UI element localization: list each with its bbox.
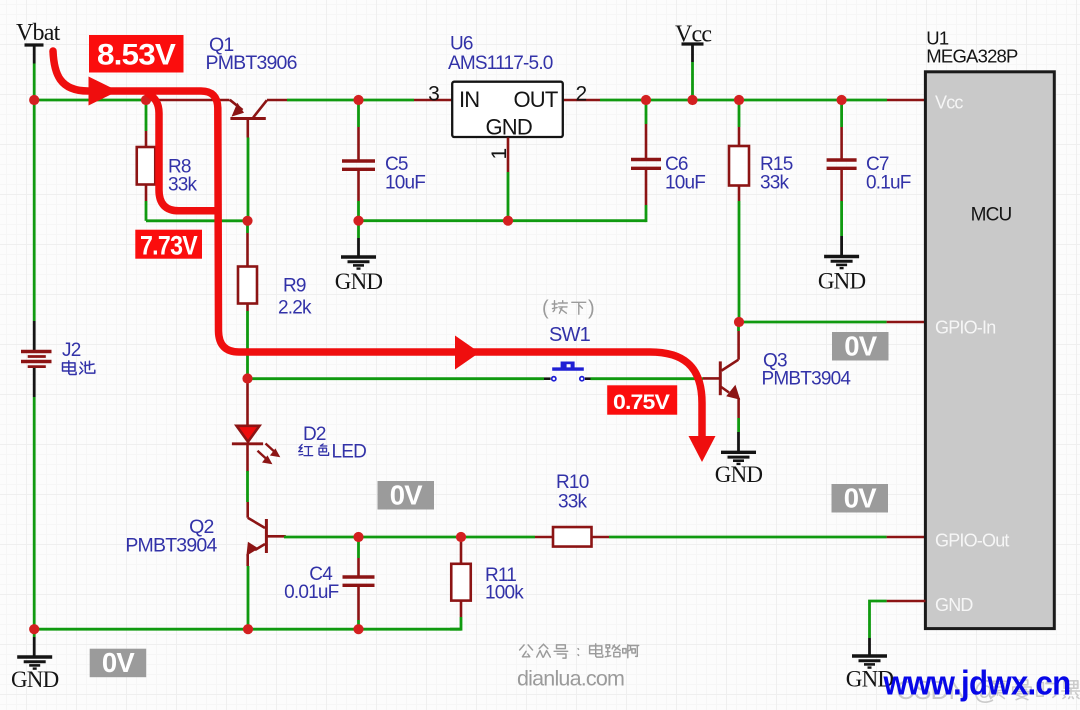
resistor R10: [553, 527, 592, 547]
transistor Q1: [230, 100, 267, 138]
label R11: [485, 565, 524, 604]
node junction 4: [641, 95, 651, 105]
wire top rail to U6: [287, 99, 414, 102]
wire Q2 emitter g: [247, 566, 250, 629]
ground Q3: [715, 452, 763, 487]
annotation 0V left: [90, 647, 147, 678]
svg-text:0V: 0V: [844, 330, 877, 361]
svg-text:3: 3: [428, 83, 439, 106]
wire C7 bot g: [840, 201, 843, 236]
annotation 7.73V: [135, 230, 202, 261]
wire C4 top g: [357, 537, 360, 558]
svg-text:MEGA328P: MEGA328P: [926, 46, 1018, 67]
pin label Vcc: [935, 93, 963, 113]
svg-text:10uF: 10uF: [665, 173, 705, 194]
node junction 1: [29, 95, 39, 105]
regulator U6 box: [452, 82, 563, 137]
wire R8 top g: [145, 100, 148, 131]
node junction 11: [242, 373, 252, 383]
svg-text:PMBT3904: PMBT3904: [125, 535, 217, 557]
svg-text:0.75V: 0.75V: [613, 390, 671, 414]
wire Q1 base g: [247, 138, 250, 221]
label U6 OUT: [513, 87, 557, 112]
wire left rail lower: [33, 397, 36, 629]
node junction 7: [837, 95, 847, 105]
svg-text:GND: GND: [335, 269, 383, 294]
wire R15 top g: [738, 100, 741, 127]
wire R9 bottom lead: [246, 304, 249, 312]
wire Q2 base g: [284, 536, 535, 539]
wire R10 right lead: [592, 536, 610, 539]
wire SW1 to Q3: [591, 377, 704, 380]
svg-text:): ): [588, 298, 594, 320]
node junction 13: [353, 532, 363, 542]
svg-text:Vbat: Vbat: [16, 20, 61, 46]
wire Q1 collector lead: [267, 99, 287, 102]
pin 1: [488, 148, 511, 159]
annotation 0.75V: [607, 385, 677, 414]
wire MCU GND g: [870, 601, 887, 638]
node junction 10: [503, 216, 513, 226]
node junction 9: [353, 216, 363, 226]
wire Q1 emitter lead: [146, 99, 230, 102]
annotation 8.53V: [89, 35, 184, 73]
wire C7 top lead: [840, 127, 843, 159]
label MCU: [971, 205, 1012, 226]
node junction 17: [29, 624, 39, 634]
label D2: [299, 424, 366, 463]
svg-text:0V: 0V: [844, 482, 877, 513]
label Q2: [125, 516, 217, 557]
svg-text:GND: GND: [818, 269, 866, 294]
wire R15 top lead: [738, 127, 741, 146]
wire U6 gnd g: [507, 172, 510, 221]
wire D2 top lead: [246, 379, 249, 426]
svg-text:0V: 0V: [390, 479, 423, 510]
wire mid rail: [359, 219, 647, 222]
wire Q3 emitter g: [737, 418, 740, 432]
svg-text:GPIO-Out: GPIO-Out: [935, 530, 1009, 550]
svg-text:8.53V: 8.53V: [97, 39, 176, 72]
svg-text:PMBT3906: PMBT3906: [206, 52, 297, 74]
svg-text:0V: 0V: [102, 647, 135, 678]
wire Q3 collector g: [737, 322, 740, 331]
wire C5 bot g: [357, 201, 360, 238]
wire battery bottom lead: [33, 367, 36, 397]
wire C4 top lead: [357, 558, 360, 576]
watermark dianlua: [517, 667, 624, 691]
capacitor C5: [342, 161, 375, 169]
svg-text:7.73V: 7.73V: [140, 230, 198, 260]
wire bottom rail: [34, 628, 461, 631]
wire left rail upper: [33, 64, 36, 322]
svg-text:100k: 100k: [485, 583, 524, 604]
wire top rail left: [34, 99, 146, 102]
wire left gnd stub g: [33, 629, 36, 637]
label C6: [665, 154, 705, 194]
wire C6 bot g: [645, 205, 648, 222]
resistor R9: [238, 267, 257, 304]
svg-text:GND: GND: [11, 667, 59, 692]
node junction 16: [353, 624, 363, 634]
current flow arrow R8 branch: [148, 94, 216, 211]
wire R9 to SW1: [248, 377, 545, 380]
wire R15 bot g: [738, 201, 741, 322]
wire D2 to Q2 g: [246, 471, 249, 502]
annotation 0V mid: [378, 479, 435, 510]
wire C6 top lead: [645, 124, 648, 158]
wire MCU Vcc lead: [887, 99, 926, 102]
ground MCU: [846, 656, 894, 692]
wire C4 bot lead: [357, 587, 360, 620]
node junction 2: [141, 95, 151, 105]
label R10: [556, 472, 589, 513]
node junction 15: [243, 624, 253, 634]
node junction 12: [734, 317, 744, 327]
wire U6 IN lead: [414, 99, 452, 102]
wire U6 OUT lead: [563, 99, 600, 102]
wire R8 bottom lead: [145, 185, 148, 202]
wire battery top lead: [33, 321, 36, 351]
label Q1: [206, 34, 297, 74]
svg-text:PMBT3904: PMBT3904: [762, 369, 852, 390]
pin label GPIO-Out: [935, 530, 1009, 550]
label J2 name: [63, 361, 95, 375]
resistor R8: [137, 147, 156, 185]
svg-text:dianlua.com: dianlua.com: [517, 667, 624, 691]
svg-text:2: 2: [576, 83, 587, 106]
svg-text:R9: R9: [283, 276, 306, 297]
svg-text:J2: J2: [62, 340, 81, 361]
wire R11 bot lead: [460, 601, 463, 617]
wire C5 bot lead: [357, 171, 360, 201]
label U6: [448, 34, 553, 75]
power flag Vbat: [16, 20, 61, 46]
watermark gongzhonghao: [520, 644, 639, 658]
wire MCU GPIO-In lead: [887, 321, 926, 324]
svg-text:R10: R10: [556, 472, 589, 493]
svg-text:OUT: OUT: [513, 87, 557, 112]
wire MCU GPIO-Out lead: [887, 536, 926, 539]
wire R11 top lead: [460, 537, 463, 565]
wire R8 top lead: [145, 131, 148, 147]
wire R10 left lead: [535, 536, 553, 539]
svg-text:GND: GND: [935, 595, 973, 615]
svg-text:0.1uF: 0.1uF: [866, 173, 911, 194]
wire gnd stub Q3: [737, 432, 740, 452]
svg-text:LED: LED: [332, 442, 367, 463]
label U6 GND: [485, 115, 532, 140]
node junction 3: [353, 95, 363, 105]
wire C5 top g: [357, 100, 360, 127]
watermark jdwx: [883, 665, 1071, 703]
svg-text:Vcc: Vcc: [675, 22, 711, 48]
switch SW1: [544, 362, 591, 381]
wire C7 bot lead: [840, 170, 843, 201]
wire R9 top lead: [246, 233, 249, 267]
label R8: [168, 157, 198, 196]
svg-text:IN: IN: [459, 87, 479, 112]
wire left gnd stub: [33, 637, 36, 656]
label C7: [866, 154, 911, 194]
pin label GPIO-In: [935, 317, 995, 337]
wire node7.73 rail: [146, 219, 248, 222]
svg-text:D2: D2: [303, 424, 326, 445]
wire R11 bot g: [450, 617, 461, 629]
transistor Q2: [246, 502, 285, 556]
wire R9 bottom g: [246, 311, 249, 379]
svg-text:0.01uF: 0.01uF: [284, 582, 339, 603]
transistor Q3: [720, 331, 740, 418]
label U6 IN: [459, 87, 479, 112]
MCU U1 box: [925, 72, 1054, 629]
wire Q3 base lead: [703, 377, 720, 380]
wire gnd stub MCU: [868, 638, 871, 656]
wire 5V rail: [600, 99, 887, 102]
wire Q2 emitter lead: [246, 554, 249, 566]
svg-text:GPIO-In: GPIO-In: [935, 317, 995, 337]
capacitor C6: [631, 160, 661, 169]
label SW1 pressed: [542, 298, 594, 320]
resistor R11: [451, 564, 471, 601]
svg-text:(: (: [542, 298, 549, 320]
svg-text:10uF: 10uF: [385, 173, 425, 194]
current flow arrow main: [53, 51, 716, 462]
pin 3: [428, 83, 439, 106]
wire R15 bot lead: [738, 186, 741, 202]
wire R9 top g: [246, 221, 249, 233]
wire C4 bot g: [357, 620, 360, 629]
wire gnd stub C7: [840, 236, 843, 256]
svg-text:AMS1117-5.0: AMS1117-5.0: [448, 53, 553, 74]
wire D2 bot lead: [246, 444, 249, 472]
wire C6 bot lead: [645, 170, 648, 205]
node junction 8: [242, 216, 252, 226]
wire GPIO-Out g: [609, 536, 887, 539]
svg-text:GND: GND: [715, 462, 763, 487]
svg-text:MCU: MCU: [971, 205, 1012, 226]
svg-text:33k: 33k: [558, 492, 588, 513]
svg-text:GND: GND: [485, 115, 532, 140]
pin 2: [576, 83, 587, 106]
svg-text:SW1: SW1: [549, 324, 591, 346]
wire GPIO-In: [739, 321, 887, 324]
svg-text:33k: 33k: [760, 173, 790, 194]
wire U6 gnd lead: [507, 138, 510, 173]
capacitor C4: [343, 577, 375, 585]
pin label GND: [935, 595, 973, 615]
wire MCU GND lead: [887, 600, 926, 603]
label R9: [278, 276, 312, 319]
svg-text:U6: U6: [450, 34, 473, 55]
label C5: [385, 154, 425, 194]
node junction 6: [734, 95, 744, 105]
wire C5 top lead: [357, 127, 360, 160]
ground C5: [335, 257, 383, 294]
wire Vbat stub: [33, 45, 36, 64]
wire gnd stub C5: [357, 238, 360, 257]
annotation 0V gpio-out: [832, 482, 889, 513]
capacitor C7: [827, 160, 857, 168]
resistor R15: [729, 146, 749, 186]
label R15: [760, 154, 793, 194]
label C4: [284, 564, 339, 603]
svg-text:Vcc: Vcc: [935, 93, 963, 113]
battery J2: [21, 352, 52, 367]
node junction 5: [687, 95, 697, 105]
label SW1: [549, 324, 591, 346]
watermark csdn: [896, 675, 1080, 705]
ground left: [11, 657, 59, 692]
LED D2: [232, 426, 280, 465]
label J2: [62, 340, 81, 361]
svg-text:33k: 33k: [168, 175, 198, 196]
annotation 0V gpio-in: [832, 330, 889, 361]
svg-text:www.jdwx.cn: www.jdwx.cn: [883, 665, 1071, 703]
label Q3: [762, 351, 852, 390]
wire R8 bottom g: [145, 201, 148, 221]
wire C6 top g: [645, 100, 648, 124]
svg-text:2.2k: 2.2k: [278, 298, 312, 319]
power flag Vcc: [675, 22, 711, 48]
wire Vcc to rail: [691, 62, 694, 100]
wire Vcc stub: [691, 44, 694, 62]
node junction 14: [456, 532, 466, 542]
ground C7: [818, 257, 866, 294]
label U1: [926, 27, 1018, 66]
wire C7 top g: [840, 100, 843, 127]
